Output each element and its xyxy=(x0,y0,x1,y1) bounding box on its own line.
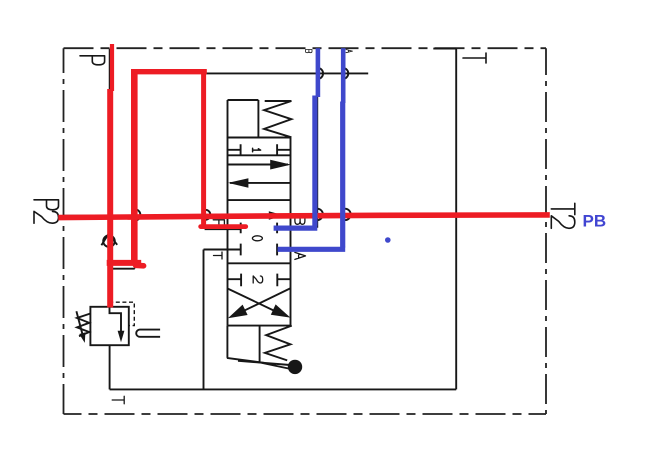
label A valve port xyxy=(295,252,306,259)
valve dividers xyxy=(228,155,291,325)
arrowhead flow left xyxy=(228,178,248,187)
plug symbol U xyxy=(136,330,160,337)
wire blue A stub xyxy=(278,247,346,252)
position 1 closed port symbols xyxy=(228,144,291,155)
wire red branch riser xyxy=(201,69,206,228)
wire hop over blue line A xyxy=(343,68,349,79)
wire P riser left xyxy=(108,49,110,307)
wire red riser main xyxy=(107,89,113,308)
valve bottom spring xyxy=(265,326,292,361)
valve top cap box xyxy=(228,100,259,138)
valve bottom cap box xyxy=(227,326,265,363)
wire red riser top xyxy=(110,44,114,91)
label P border top xyxy=(80,56,105,65)
label a tiny top xyxy=(346,50,353,53)
label P2 left xyxy=(34,200,59,210)
wire hop over blue line B xyxy=(318,68,324,79)
wire bottom tank line xyxy=(110,388,457,390)
label T bottom tank xyxy=(112,396,124,404)
wire parallel riser xyxy=(134,73,136,268)
flow arrow mid shaft xyxy=(228,215,291,217)
arrowhead flow right xyxy=(270,160,291,170)
lever lines xyxy=(238,361,290,369)
wire right tank riser xyxy=(455,49,457,390)
wire main P2 line (under red) xyxy=(64,214,547,216)
wire red parallel riser xyxy=(131,69,138,264)
wire black under blue A xyxy=(342,48,344,248)
label P valve port xyxy=(213,220,224,229)
blue trace hoses xyxy=(274,48,346,249)
label T valve port xyxy=(214,252,223,259)
enclosure dash-dot border xyxy=(64,48,547,414)
wire P stub to valve xyxy=(205,228,241,230)
wire top tank line xyxy=(205,72,369,74)
wire blue B riser xyxy=(312,96,317,226)
label B valve port xyxy=(295,215,305,224)
arrowhead flow mid xyxy=(269,211,284,220)
center position closed ports xyxy=(204,223,291,256)
wire red bottom blob xyxy=(136,262,144,268)
crossed flow path 1 xyxy=(228,289,276,312)
relief valve RV1 xyxy=(76,302,134,345)
wire red main P2 xyxy=(58,215,550,218)
wire hop main over riser 1 xyxy=(135,209,141,220)
crossed flow path 2 xyxy=(243,288,290,311)
wire bottom link xyxy=(109,268,134,270)
flow arrow left shaft xyxy=(230,182,291,184)
wire blue B riser top xyxy=(316,48,321,97)
directional control valve DV1 xyxy=(204,100,292,389)
wire T port down xyxy=(203,250,205,390)
check valve CV1 xyxy=(101,234,117,247)
wire black under blue B xyxy=(317,48,319,227)
position 2 closed port symbols xyxy=(228,274,291,287)
label T2 right xyxy=(551,203,575,214)
label digit 1 xyxy=(253,148,261,152)
wire red top link xyxy=(131,69,207,74)
wire blue A riser top xyxy=(341,48,346,103)
valve body outline xyxy=(228,138,291,326)
label b tiny top xyxy=(306,50,313,53)
wire P branch riser xyxy=(204,73,206,229)
flow arrow right xyxy=(228,164,289,166)
arrowhead relief adjust xyxy=(79,332,85,343)
wire hop main over blue A xyxy=(345,209,351,220)
valve top spring xyxy=(264,101,291,137)
arrowhead cross left xyxy=(228,305,248,319)
label digit 0 xyxy=(252,236,262,241)
wire blue A riser xyxy=(340,102,345,248)
lever knob ball xyxy=(288,360,302,374)
wire top right stub xyxy=(433,48,456,50)
label digit 2 xyxy=(253,276,263,283)
wire relief valve to tank xyxy=(109,345,111,389)
wire hop main over riser 2 xyxy=(205,210,210,220)
red trace hoses xyxy=(58,44,550,308)
labels (CAD stick font, rotated) xyxy=(34,50,575,404)
wire blue B stub xyxy=(274,226,318,231)
svg-text:PB: PB xyxy=(583,212,607,231)
node blue dot xyxy=(385,237,391,243)
wire red P stub xyxy=(201,224,246,229)
wire hop main over blue B xyxy=(317,209,323,220)
label T border top right xyxy=(463,53,486,63)
wire red bottom link xyxy=(107,260,142,266)
arrowhead cross right xyxy=(271,304,291,317)
arrowhead relief flow xyxy=(118,331,125,343)
